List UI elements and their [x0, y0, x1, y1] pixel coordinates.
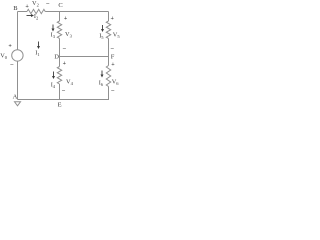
svg-text:–: – — [110, 45, 115, 51]
resistor R6 (V6) vertical — [106, 66, 110, 87]
svg-text:I6: I6 — [99, 80, 104, 88]
current arrow I5 — [102, 25, 104, 30]
svg-text:+: + — [25, 4, 29, 10]
svg-text:+: + — [111, 16, 115, 22]
svg-text:I4: I4 — [51, 82, 56, 90]
svg-text:B: B — [13, 5, 18, 12]
svg-text:+: + — [8, 44, 12, 50]
svg-text:I1: I1 — [35, 50, 39, 58]
wire D to F horizontal — [60, 56, 109, 58]
svg-text:V6: V6 — [112, 79, 120, 87]
svg-text:V3: V3 — [65, 31, 73, 39]
svg-text:I3: I3 — [51, 32, 56, 40]
resistor R5 (V5) vertical — [106, 21, 110, 39]
svg-text:V4: V4 — [66, 79, 74, 87]
resistor R3 (V3) vertical — [57, 21, 61, 39]
wire right vertical top to R5 — [108, 12, 110, 22]
wire R4 to bottom node E — [59, 84, 61, 100]
resistor R4 (V4) vertical — [57, 67, 61, 85]
resistor R2 (V2) horizontal — [27, 9, 45, 13]
wire top horizontal B to R2 — [18, 11, 28, 13]
wire node F to R6 — [108, 57, 110, 66]
current arrow I6 — [101, 71, 103, 76]
wire source to bottom-left corner — [17, 61, 19, 99]
ground symbol at A — [15, 102, 21, 106]
svg-text:V2: V2 — [32, 0, 39, 8]
wire R6 to bottom-right corner — [18, 87, 109, 100]
voltage source V0 circle — [12, 50, 23, 61]
wire B top-left vertical to source — [17, 12, 19, 50]
current arrow I3 — [52, 25, 54, 30]
wire R5 to node F — [108, 39, 110, 57]
svg-text:–: – — [110, 88, 115, 94]
svg-text:A: A — [13, 94, 18, 101]
svg-text:+: + — [111, 62, 115, 68]
svg-text:I5: I5 — [99, 33, 104, 41]
svg-text:C: C — [58, 2, 62, 9]
svg-text:E: E — [58, 101, 62, 108]
svg-text:V0: V0 — [0, 53, 8, 61]
svg-text:–: – — [9, 62, 14, 68]
svg-text:V5: V5 — [113, 32, 121, 40]
current arrow I1 — [38, 42, 40, 47]
svg-text:–: – — [61, 87, 66, 93]
svg-text:D: D — [54, 54, 59, 61]
svg-text:–: – — [62, 45, 67, 51]
wire node D to R4 — [59, 57, 61, 67]
svg-text:+: + — [64, 16, 68, 22]
svg-text:F: F — [111, 53, 115, 60]
wire middle C down to R3 — [59, 12, 61, 22]
svg-text:–: – — [45, 1, 50, 7]
wire R2 to C to top-right corner — [45, 11, 108, 13]
svg-text:+: + — [63, 61, 67, 67]
current arrow I4 — [53, 72, 55, 77]
wire R3 to node D — [59, 39, 61, 57]
current arrow I2 — [27, 15, 32, 17]
